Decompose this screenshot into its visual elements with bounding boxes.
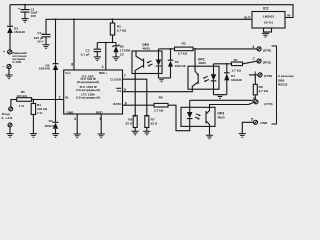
optocoupler OP2 — [132, 43, 162, 74]
svg-text:−: − — [2, 65, 4, 69]
terminal 3 TXD — [254, 71, 272, 78]
svg-text:C2 +: C2 + — [37, 31, 44, 35]
ground (R7) — [143, 131, 150, 135]
wire OP2 emitter to R6 — [134, 74, 136, 118]
diode D1 — [224, 64, 242, 95]
ground (minus terminal) — [5, 75, 12, 79]
terminal 4 DTR — [252, 45, 271, 52]
svg-text:2,7 kΩ: 2,7 kΩ — [154, 109, 164, 113]
wire analog IN pin 2 — [32, 96, 64, 101]
ground (OP2 LED) — [158, 78, 165, 82]
svg-text:1N4148: 1N4148 — [39, 67, 50, 71]
wire OP1 LED / D1 join — [214, 94, 227, 96]
svg-text:GND: GND — [67, 110, 75, 114]
label DB9 connector — [278, 74, 294, 86]
resistor R1 labels — [232, 58, 242, 73]
OP3 LED — [187, 100, 193, 126]
svg-text:82 Ω: 82 Ω — [126, 122, 133, 126]
terminal 7 RTS — [253, 57, 271, 64]
svg-text:7: 7 — [124, 74, 126, 78]
svg-text:(8-разрядный): (8-разрядный) — [77, 80, 99, 84]
capacitor C2 — [34, 31, 51, 45]
ground (terminal 5) — [239, 134, 246, 138]
svg-text:2,7 kΩ: 2,7 kΩ — [232, 69, 242, 73]
svg-text:DATA: DATA — [113, 102, 122, 106]
optocoupler OP1 — [188, 58, 219, 90]
svg-text:16V: 16V — [31, 14, 37, 18]
wire DTR line with R2 — [159, 47, 257, 51]
svg-text:LM2931: LM2931 — [263, 15, 275, 19]
ground (C1) — [21, 19, 28, 23]
svg-text:(10-разрядный): (10-разрядный) — [76, 88, 100, 92]
wire 5V rail — [46, 19, 252, 34]
terminal input bottom — [8, 123, 12, 134]
svg-text:5: 5 — [251, 117, 253, 121]
resistor R6 — [126, 116, 138, 132]
svg-text:Vcc: Vcc — [65, 71, 71, 75]
wire TXD line — [249, 74, 258, 76]
svg-text:1N4148: 1N4148 — [231, 78, 242, 82]
svg-text:7: 7 — [253, 57, 255, 61]
ground (C3) — [94, 57, 101, 61]
svg-text:4N33: 4N33 — [217, 116, 225, 120]
svg-text:(DTR): (DTR) — [263, 48, 271, 52]
ground (IC1 REF-) — [98, 134, 105, 138]
wire CLOCK pin 7 — [123, 74, 147, 117]
svg-text:+: + — [3, 50, 5, 54]
svg-text:(CTS): (CTS) — [264, 102, 272, 106]
svg-text:0,1 µF: 0,1 µF — [81, 52, 90, 56]
OP3 light arrows — [195, 114, 201, 120]
capacitor C1 — [18, 4, 38, 19]
svg-text:4: 4 — [252, 45, 254, 49]
svg-text:1N4148: 1N4148 — [45, 124, 56, 128]
svg-text:6: 6 — [125, 102, 127, 106]
wire DATA pin 6 — [123, 102, 155, 106]
resistor R4 — [31, 100, 48, 134]
svg-text:1: 1 — [102, 65, 104, 69]
terminal + external supply — [3, 50, 12, 54]
svg-text:CS: CS — [117, 89, 121, 93]
resistor R3 — [110, 18, 126, 42]
OP1 LED — [211, 64, 217, 95]
svg-text:D4: D4 — [49, 119, 53, 123]
regulator IC2 — [244, 6, 291, 32]
svg-text:82 Ω: 82 Ω — [151, 122, 158, 126]
svg-text:(12-разрядный): (12-разрядный) — [76, 95, 100, 99]
wire REF- pin 3 — [99, 114, 101, 134]
wire reference node — [97, 42, 116, 44]
terminal - external supply — [2, 64, 11, 75]
svg-text:1N4148: 1N4148 — [175, 64, 186, 68]
IC1 ADC box — [64, 70, 123, 114]
terminal 8 CTS — [253, 97, 273, 106]
terminal input top — [9, 107, 13, 111]
resistor R8 — [154, 96, 190, 131]
OP1 phototransistor — [192, 66, 198, 89]
ground (D4) — [52, 134, 59, 138]
ground (OP3 emitter) — [206, 135, 213, 139]
resistor R5 — [11, 90, 32, 108]
wire CTS line A — [190, 100, 254, 101]
svg-text:GND: GND — [260, 121, 268, 125]
svg-text:8: 8 — [71, 63, 73, 67]
label external supply — [13, 51, 27, 64]
svg-text:R2: R2 — [182, 42, 186, 46]
svg-text:REF+: REF+ — [99, 71, 107, 75]
svg-text:CLOCK: CLOCK — [110, 78, 122, 82]
svg-text:R8: R8 — [159, 96, 163, 100]
ground (input) — [6, 134, 13, 138]
zener D5 LT1009 — [113, 43, 131, 57]
wire Vcc pin 8 riser — [71, 18, 75, 70]
wire OP1 collector riser — [194, 49, 196, 66]
diode D2 — [168, 49, 186, 78]
svg-text:RS232: RS232 — [278, 83, 288, 87]
svg-text:2: 2 — [59, 96, 61, 100]
svg-text:2,7 kΩ: 2,7 kΩ — [259, 89, 269, 93]
diode D6 with riser — [39, 18, 59, 99]
svg-text:4N35: 4N35 — [198, 61, 206, 65]
svg-text:CZ: CZ — [120, 53, 124, 57]
svg-text:(TXD): (TXD) — [264, 74, 272, 78]
diode D3 — [7, 26, 25, 50]
svg-text:2,7 kΩ: 2,7 kΩ — [178, 51, 188, 55]
svg-text:1 %: 1 % — [37, 111, 43, 115]
capacitor C3 — [81, 43, 101, 57]
wire left supply drop — [9, 5, 11, 27]
svg-text:1 %: 1 % — [19, 104, 25, 108]
resistor R2 labels — [178, 42, 188, 56]
svg-text:IC2: IC2 — [263, 6, 269, 10]
diode D4 — [45, 100, 59, 134]
svg-text:16 V: 16 V — [37, 40, 44, 44]
optocoupler OP3 — [181, 107, 225, 126]
svg-text:4: 4 — [74, 117, 76, 121]
wire CS pin 5 to OP1 emitter — [123, 88, 193, 92]
svg-text:AZ-5.0: AZ-5.0 — [264, 20, 274, 24]
wire CTS line B — [210, 102, 254, 107]
svg-text:5-15В: 5-15В — [13, 60, 22, 64]
OP3 phototransistor — [206, 107, 210, 135]
wire GND pin 4 — [74, 114, 77, 134]
svg-text:3: 3 — [254, 71, 256, 75]
wire top supply rail — [10, 5, 293, 18]
svg-text:100 kΩ: 100 kΩ — [17, 94, 28, 98]
ground (IC2) — [262, 33, 269, 37]
svg-text:3: 3 — [99, 117, 101, 121]
OP2 light arrows — [147, 61, 153, 67]
ground (D5) — [112, 57, 119, 61]
svg-text:5: 5 — [124, 88, 126, 92]
wire RTS line with R1 — [214, 61, 257, 65]
resistor R9 — [253, 75, 268, 100]
OP2 phototransistor — [135, 51, 143, 74]
svg-text:4N35: 4N35 — [142, 47, 150, 51]
svg-text:1N4148: 1N4148 — [14, 30, 25, 34]
svg-text:OUT: OUT — [244, 15, 251, 19]
svg-text:R1: R1 — [234, 58, 238, 62]
OP1 light arrows — [203, 76, 209, 82]
ground (OP1 LED) — [216, 95, 223, 99]
resistor R7 — [145, 116, 158, 132]
svg-text:+: + — [18, 7, 20, 11]
svg-text:REF-: REF- — [96, 110, 103, 114]
svg-text:2,7 kΩ: 2,7 kΩ — [117, 28, 127, 32]
wire REF+ pin 1 riser — [102, 42, 107, 70]
OP2 LED — [156, 49, 162, 78]
svg-text:0...+5 В: 0...+5 В — [2, 116, 14, 120]
label input — [2, 112, 14, 120]
ground (R4) — [30, 134, 37, 138]
bracket DB9 — [272, 46, 277, 124]
ground (R6) — [132, 131, 139, 135]
ground (IC1 GND) — [74, 134, 81, 138]
wire D2 to LED cathode join — [159, 77, 171, 79]
ground (C2) — [42, 45, 49, 49]
svg-text:(RTS): (RTS) — [263, 61, 271, 65]
terminal 5 GND — [242, 117, 268, 133]
